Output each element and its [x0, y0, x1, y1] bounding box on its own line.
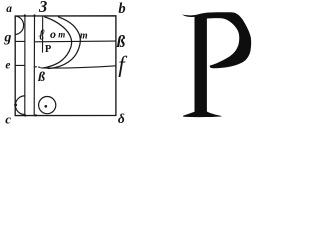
svg-text:e: e — [5, 60, 10, 72]
junction dot stem-right bottom — [35, 114, 37, 116]
stem left vertical — [24, 16, 26, 115]
svg-text:δ: δ — [118, 111, 125, 125]
circle centre dot — [44, 105, 47, 108]
svg-text:m: m — [80, 31, 88, 42]
big letter P — [182, 12, 251, 117]
frame square — [15, 16, 116, 116]
svg-text:b: b — [118, 1, 125, 17]
svg-text:ℓ: ℓ — [39, 27, 45, 43]
junction dot stem-right top — [33, 14, 35, 16]
svg-text:a: a — [6, 3, 12, 15]
svg-text:ß: ß — [116, 32, 126, 51]
junction dot stem-left top — [24, 14, 26, 16]
midline — [34, 40, 115, 43]
junction dot stem-left bottom — [24, 114, 26, 116]
svg-text:ß: ß — [37, 69, 45, 84]
point tick below l — [42, 16, 44, 52]
e tick left — [16, 64, 24, 66]
svg-text:P: P — [45, 44, 52, 55]
top serif semicircle — [15, 16, 23, 35]
svg-text:3: 3 — [38, 0, 47, 16]
inner bowl arc — [44, 17, 72, 68]
svg-text:f: f — [118, 52, 128, 77]
midline tick left (g line) — [16, 40, 24, 42]
svg-text:c: c — [5, 111, 11, 125]
bottom serif circle — [39, 97, 56, 114]
bottom serif semicircle — [15, 96, 24, 115]
svg-text:m: m — [58, 30, 65, 40]
svg-text:o: o — [50, 27, 56, 41]
bowl bottom line (f line) — [34, 66, 116, 68]
frame point dot — [14, 103, 17, 106]
svg-text:g: g — [3, 31, 11, 46]
outer bowl arc — [48, 17, 80, 69]
stem right vertical — [33, 16, 35, 115]
